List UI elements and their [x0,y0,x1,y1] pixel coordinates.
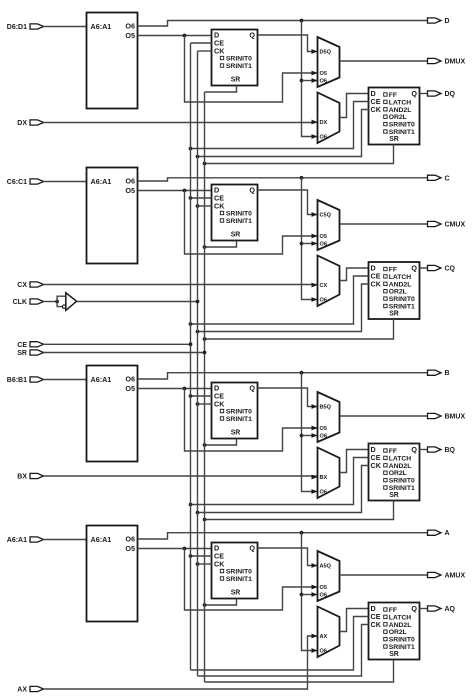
wire O6 C branch to mux COUTMUX [302,241,318,246]
svg-text:C: C [445,175,450,182]
svg-text:OR2L: OR2L [389,114,407,121]
wire CQFF CE to CE bus [191,276,369,324]
svg-text:BX: BX [320,475,328,481]
node O5 C junction [183,189,187,193]
wire CQFF Q to output CQ [420,267,428,269]
svg-text:SRINIT0: SRINIT0 [389,478,415,485]
svg-text:SRINIT1: SRINIT1 [226,218,252,225]
node C5FF SR junction [203,245,207,249]
svg-text:AND2L: AND2L [389,622,412,629]
wire A5FF SR pin to SR bus [205,599,237,606]
svg-text:SRINIT0: SRINIT0 [389,637,415,644]
svg-text:Q: Q [249,384,255,393]
wire DQFF CK to CLK bus [198,110,369,157]
svg-text:Q: Q [411,445,417,454]
svg-text:SRINIT1: SRINIT1 [226,576,252,583]
wire O6 D to output D [138,21,428,27]
wire O6 B vertical to muxes [302,373,318,494]
svg-text:CK: CK [371,461,382,470]
input port B6:B1 [7,377,44,384]
output port CMUX [428,221,466,228]
svg-text:SRINIT1: SRINIT1 [389,129,415,136]
svg-text:SRINIT0: SRINIT0 [226,56,252,63]
svg-text:AND2L: AND2L [389,281,412,288]
svg-text:CMUX: CMUX [445,222,466,229]
wire clock mux to CLK bus [77,301,198,303]
node BQFF SR junction [203,518,207,522]
node SR bus junction [203,351,207,355]
svg-text:DMUX: DMUX [445,59,466,66]
wire BQFF CK to CLK bus [198,466,369,513]
flip-flop B5FF (SRINIT) [212,383,258,439]
mux DOUTMUX [318,37,340,87]
node O5 A junction [183,547,187,551]
node O6 D branch [300,79,304,83]
wire O5 B to flip-flop D [138,388,212,390]
svg-text:A6:A1: A6:A1 [7,537,27,544]
wire C5FF CE pin to CE bus [191,197,212,199]
svg-text:AND2L: AND2L [389,463,412,470]
svg-text:BX: BX [17,474,27,481]
svg-text:SRINIT1: SRINIT1 [389,304,415,311]
svg-text:DQ: DQ [445,91,456,98]
wire D5FF Q to mux D5Q input [258,35,318,54]
output port DMUX [428,58,466,65]
svg-text:D6:D1: D6:D1 [7,24,27,31]
svg-text:CX: CX [320,283,328,289]
svg-text:O5: O5 [320,234,327,240]
LUT B (A6:A1) [87,366,138,462]
wire CLK bus vertical [197,51,199,676]
node A5FF SR junction [203,603,207,607]
input port CLK [13,299,44,306]
wire O5 A to flip-flop D [138,548,212,550]
mux BOUTMUX [318,392,340,442]
output port BMUX [428,413,466,420]
node C5FF CE junction [189,196,193,200]
svg-text:Q: Q [411,264,417,273]
output port C [428,175,450,182]
svg-text:SR: SR [389,136,399,143]
svg-text:FF: FF [389,92,397,99]
node DQFF SR junction [203,162,207,166]
svg-text:CLK: CLK [13,299,27,306]
wire O6 C to output C [138,178,428,181]
node O6 C branch [300,242,304,246]
input port CX [17,282,43,289]
flip-flop CQFF (FF/LATCH) [369,262,420,319]
svg-text:O6: O6 [320,490,327,496]
LUT A (A6:A1) [87,526,138,622]
svg-text:DX: DX [320,120,328,126]
wire D5FF SR pin to SR bus [205,86,237,93]
wire mux AFFMUX to flip-flop AQ D [340,609,369,632]
clock polarity mux U_CLKINV [62,293,76,311]
wire mux COUTMUX to output CMUX [340,223,428,225]
wire BQFF SR to SR bus [205,501,394,520]
svg-text:O6: O6 [125,535,135,544]
LUT D (A6:A1) [87,13,138,109]
LUT C (A6:A1) [87,168,138,264]
svg-text:AND2L: AND2L [389,107,412,114]
wire CQFF SR to SR bus [205,319,394,339]
wire AQFF Q to output AQ [420,608,428,610]
wire O6 B branch to mux BOUTMUX [302,433,318,438]
wire CX to mux CFFMUX [43,283,318,288]
svg-text:O5: O5 [320,426,327,432]
output port AMUX [428,572,466,579]
output port AQ [428,606,456,613]
node CQFF CK junction [196,330,200,334]
node CE bus junction [189,342,193,346]
wire DQFF CE to CE bus [191,102,369,149]
svg-text:O6: O6 [320,593,327,599]
output port DQ [428,91,456,98]
wire O6 A to output A [138,533,428,539]
wire B5FF CE pin to CE bus [191,395,212,397]
mux AOUTMUX [318,551,340,601]
mux BFFMUX [318,448,340,499]
node O6 A branch [300,593,304,597]
output port CQ [428,265,456,272]
mux AFFMUX [318,607,340,658]
wire O6 A vertical to muxes [302,533,318,653]
wire BQFF CE to CE bus [191,458,369,505]
wire mux DOUTMUX to output DMUX [340,60,428,62]
node O6 B junction [300,371,304,375]
node C5FF CK junction [196,204,200,208]
input port DX [17,120,43,127]
input port A6:A1 [7,537,44,544]
node BQFF CK junction [196,511,200,515]
wire O5 A to mux AOUTMUX [185,549,318,611]
svg-text:AX: AX [320,634,328,640]
svg-text:A5Q: A5Q [320,564,332,570]
svg-text:CK: CK [371,280,382,289]
wire O5 D to flip-flop D [138,35,212,37]
svg-text:OR2L: OR2L [389,470,407,477]
wire D5FF CE pin to CE bus [191,42,212,44]
node B5FF SR junction [203,443,207,447]
wire C6:C1 to LUT [43,181,87,183]
wire O5 B to mux BOUTMUX [185,389,318,452]
node CLK junction [55,300,59,304]
svg-text:O5: O5 [125,544,135,553]
wire C5FF SR pin to SR bus [205,241,237,248]
svg-text:SRINIT0: SRINIT0 [226,409,252,416]
svg-text:SRINIT1: SRINIT1 [389,644,415,651]
node O6 D junction [300,19,304,23]
svg-text:D: D [445,18,450,25]
flip-flop C5FF (SRINIT) [212,185,258,241]
wire mux BFFMUX to flip-flop BQ D [340,450,369,473]
flip-flop BQFF (FF/LATCH) [369,444,420,501]
svg-text:O5: O5 [320,585,327,591]
svg-text:C5Q: C5Q [320,213,332,219]
node A5FF CE junction [189,554,193,558]
svg-text:A: A [445,530,450,537]
mux DFFMUX [318,93,340,144]
svg-text:FF: FF [389,448,397,455]
svg-text:AX: AX [17,687,27,694]
wire SR to SR bus [43,352,205,354]
wire BQFF Q to output BQ [420,449,428,451]
svg-text:SR: SR [389,492,399,499]
wire O5 C to mux COUTMUX [185,191,318,255]
svg-text:AQ: AQ [445,606,456,613]
svg-text:OR2L: OR2L [389,629,407,636]
svg-text:O6: O6 [125,177,135,186]
node O6 C junction [300,176,304,180]
svg-text:O5: O5 [320,71,327,77]
svg-text:SR: SR [17,350,27,357]
svg-text:A6:A1: A6:A1 [91,22,112,31]
svg-text:Q: Q [249,186,255,195]
wire O6 C vertical to muxes [302,178,318,302]
node O5 D junction [183,34,187,38]
svg-text:SRINIT1: SRINIT1 [226,63,252,70]
wire A5FF CK pin to CLK bus [198,563,212,565]
wire SR bus vertical [204,92,206,682]
svg-text:B: B [445,370,450,377]
svg-text:D5Q: D5Q [320,50,332,56]
svg-text:O6: O6 [320,649,327,655]
output port A [428,530,450,537]
input port CE [17,342,43,349]
svg-text:SRINIT0: SRINIT0 [389,296,415,303]
flip-flop AQFF (FF/LATCH) [369,603,420,660]
svg-text:SR: SR [231,77,241,84]
wire CLK to clock mux [43,301,57,303]
svg-text:O5: O5 [125,186,135,195]
wire O6 B to output B [138,373,428,379]
svg-text:Q: Q [249,544,255,553]
wire CLK true branch [57,296,66,301]
wire C5FF CK pin to CLK bus [198,205,212,207]
node BQFF CE junction [189,503,193,507]
svg-text:Q: Q [411,89,417,98]
svg-text:CK: CK [371,620,382,629]
svg-text:Q: Q [249,31,255,40]
svg-text:SRINIT1: SRINIT1 [226,416,252,423]
wire DX to mux DFFMUX [43,120,318,125]
svg-text:O5: O5 [125,384,135,393]
node CQFF CE junction [189,322,193,326]
input port AX [17,686,43,693]
svg-text:LATCH: LATCH [389,99,412,106]
svg-text:FF: FF [389,267,397,274]
svg-text:SR: SR [231,232,241,239]
input port D6:D1 [7,24,44,31]
node DQFF CE junction [189,147,193,151]
input port C6:C1 [7,179,44,186]
wire DQFF Q to output DQ [420,93,428,95]
wire CLK inverted branch [57,302,63,307]
node CLK bus junction [196,300,200,304]
svg-text:FF: FF [389,607,397,614]
svg-text:SRINIT0: SRINIT0 [226,211,252,218]
wire O6 A branch to mux AOUTMUX [302,592,318,597]
flip-flop A5FF (SRINIT) [212,543,258,599]
wire CQFF CK to CLK bus [198,284,369,332]
mux CFFMUX [318,256,340,307]
wire C5FF Q to mux C5Q input [258,190,318,217]
wire AQFF CE to CE bus [191,617,369,671]
wire mux DFFMUX to flip-flop DQ D [340,94,369,118]
svg-text:DX: DX [17,120,27,127]
wire D5FF CK pin to CLK bus [198,50,212,52]
svg-text:B5Q: B5Q [320,405,332,411]
svg-text:SR: SR [389,311,399,318]
svg-text:A6:A1: A6:A1 [91,535,112,544]
svg-text:SRINIT1: SRINIT1 [389,485,415,492]
wire B6:B1 to LUT [43,379,87,381]
svg-text:LATCH: LATCH [389,614,412,621]
input port BX [17,473,43,480]
flip-flop D5FF (SRINIT) [212,30,258,86]
wire B5FF SR pin to SR bus [205,439,237,446]
wire AX to mux AFFMUX [43,634,318,689]
svg-text:SRINIT0: SRINIT0 [226,569,252,576]
svg-text:A6:A1: A6:A1 [91,177,112,186]
svg-text:O6: O6 [320,298,327,304]
svg-text:O6: O6 [320,242,327,248]
output port BQ [428,447,456,454]
svg-text:CQ: CQ [445,266,456,273]
wire O6 D branch to mux DOUTMUX [302,78,318,83]
wire B5FF CK pin to CLK bus [198,403,212,405]
node B5FF CE junction [189,394,193,398]
svg-text:SR: SR [389,651,399,658]
svg-text:C6:C1: C6:C1 [7,179,27,186]
wire O5 D to mux DOUTMUX [185,36,318,103]
svg-text:AMUX: AMUX [445,573,466,580]
output port B [428,370,450,377]
svg-text:CK: CK [214,400,225,409]
input port SR [17,350,43,357]
svg-text:O6: O6 [125,22,135,31]
svg-text:Q: Q [411,604,417,613]
svg-text:O6: O6 [125,375,135,384]
svg-text:SRINIT0: SRINIT0 [389,122,415,129]
wire AQFF SR to SR bus [205,660,394,683]
node O6 B branch [300,434,304,438]
svg-text:O6: O6 [320,434,327,440]
output port D [428,18,450,25]
svg-text:SR: SR [231,590,241,597]
svg-text:SR: SR [231,430,241,437]
svg-text:CK: CK [214,202,225,211]
svg-text:CK: CK [371,105,382,114]
svg-text:O6: O6 [320,79,327,85]
svg-text:CE: CE [17,342,27,349]
wire B5FF Q to mux B5Q input [258,388,318,409]
mux COUTMUX [318,200,340,250]
svg-text:B6:B1: B6:B1 [7,377,27,384]
wire CE to CE bus [43,343,191,345]
wire A6:A1 to LUT [43,539,87,541]
svg-text:CK: CK [214,560,225,569]
svg-text:BMUX: BMUX [445,414,466,421]
wire mux CFFMUX to flip-flop CQ D [340,268,369,281]
wire BX to mux BFFMUX [43,475,318,480]
node A5FF CK junction [196,562,200,566]
node O5 B junction [183,387,187,391]
svg-text:LATCH: LATCH [389,274,412,281]
wire mux AOUTMUX to output AMUX [340,574,428,576]
svg-text:OR2L: OR2L [389,289,407,296]
svg-text:BQ: BQ [445,447,456,454]
svg-text:CX: CX [17,282,27,289]
svg-text:O5: O5 [125,31,135,40]
node CQFF SR junction [203,337,207,341]
wire A5FF CE pin to CE bus [191,555,212,557]
svg-text:CK: CK [214,47,225,56]
svg-text:A6:A1: A6:A1 [91,375,112,384]
wire O5 C to flip-flop D [138,190,212,192]
node DQFF CK junction [196,155,200,159]
wire mux BOUTMUX to output BMUX [340,415,428,417]
flip-flop DQFF (FF/LATCH) [369,88,420,145]
wire D6:D1 to LUT [43,26,87,28]
wire DQFF SR to SR bus [205,145,394,164]
svg-text:LATCH: LATCH [389,455,412,462]
wire AQFF CK to CLK bus [198,625,369,677]
wire O6 D vertical to muxes [302,21,318,139]
node O6 A junction [300,531,304,535]
wire CE bus vertical [190,43,192,670]
wire A5FF Q to mux A5Q input [258,548,318,568]
node B5FF CK junction [196,402,200,406]
svg-text:O6: O6 [320,135,327,141]
